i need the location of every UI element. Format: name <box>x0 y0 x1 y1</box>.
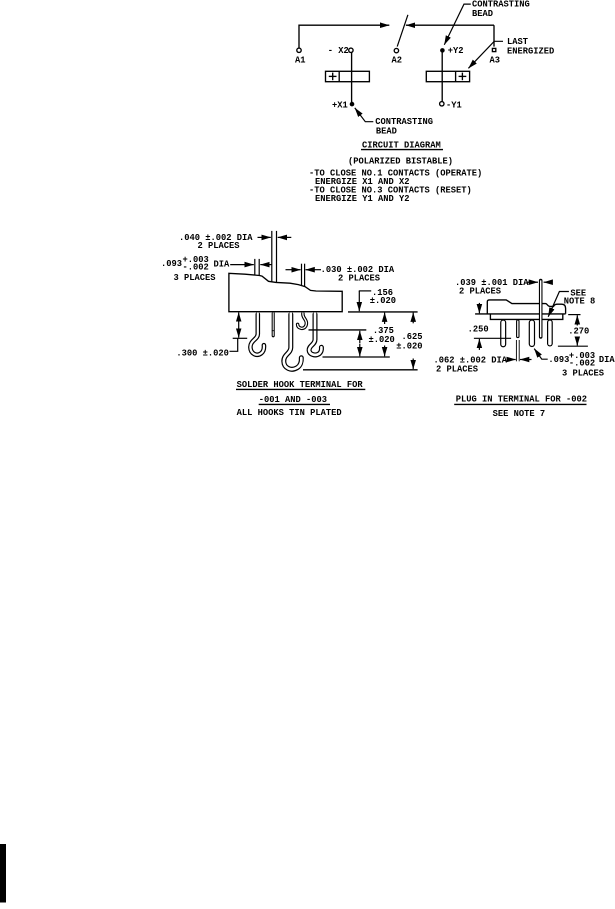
svg-text:.270: .270 <box>568 326 589 336</box>
svg-text:BEAD: BEAD <box>472 9 493 19</box>
svg-text:+Y2: +Y2 <box>448 46 464 56</box>
svg-text:(POLARIZED BISTABLE): (POLARIZED BISTABLE) <box>348 156 453 166</box>
svg-text:NOTE 8: NOTE 8 <box>564 297 596 307</box>
svg-text:-001 AND -003: -001 AND -003 <box>259 395 327 405</box>
svg-text:ALL HOOKS TIN PLATED: ALL HOOKS TIN PLATED <box>237 408 342 418</box>
svg-text:+X1: +X1 <box>332 100 348 110</box>
svg-text:±.020: ±.020 <box>396 341 422 351</box>
svg-text:±.020: ±.020 <box>370 296 396 306</box>
svg-text:2 PLACES: 2 PLACES <box>436 365 478 375</box>
svg-text:CONTRASTING: CONTRASTING <box>375 117 433 127</box>
svg-text:A1: A1 <box>295 55 306 65</box>
svg-text:2 PLACES: 2 PLACES <box>338 274 380 284</box>
svg-text:±.020: ±.020 <box>369 335 395 345</box>
svg-text:.250: .250 <box>468 325 489 335</box>
svg-text:LAST: LAST <box>507 37 528 47</box>
svg-text:DIA: DIA <box>214 259 231 269</box>
svg-text:2 PLACES: 2 PLACES <box>198 241 240 251</box>
svg-text:3 PLACES: 3 PLACES <box>562 368 604 378</box>
svg-text:CIRCUIT DIAGRAM: CIRCUIT DIAGRAM <box>362 140 441 150</box>
svg-text:.093: .093 <box>161 259 182 269</box>
svg-text:2 PLACES: 2 PLACES <box>459 287 501 297</box>
svg-text:PLUG IN TERMINAL FOR -002: PLUG IN TERMINAL FOR -002 <box>456 395 587 405</box>
svg-text:A2: A2 <box>392 55 403 65</box>
svg-text:ENERGIZE Y1 AND Y2: ENERGIZE Y1 AND Y2 <box>315 194 410 204</box>
svg-text:SEE NOTE 7: SEE NOTE 7 <box>493 409 546 419</box>
svg-text:DIA: DIA <box>599 355 615 365</box>
svg-text:-.002: -.002 <box>183 263 209 273</box>
svg-text:3 PLACES: 3 PLACES <box>174 273 216 283</box>
svg-text:- X2: - X2 <box>328 46 349 56</box>
svg-text:BEAD: BEAD <box>376 126 397 136</box>
svg-text:ENERGIZED: ENERGIZED <box>507 46 554 56</box>
svg-text:SOLDER HOOK TERMINAL FOR: SOLDER HOOK TERMINAL FOR <box>237 380 364 390</box>
svg-text:.300 ±.020: .300 ±.020 <box>176 348 229 358</box>
svg-text:A3: A3 <box>490 55 501 65</box>
svg-text:-.002: -.002 <box>569 359 595 369</box>
svg-text:-Y1: -Y1 <box>446 100 462 110</box>
svg-text:.093: .093 <box>548 355 569 365</box>
